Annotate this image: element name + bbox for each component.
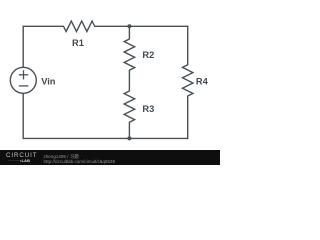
svg-text:R1: R1 xyxy=(72,38,84,48)
svg-text:R2: R2 xyxy=(142,50,154,60)
svg-text:Vin: Vin xyxy=(41,77,56,87)
svg-text:R3: R3 xyxy=(142,104,154,114)
svg-text:R4: R4 xyxy=(196,76,209,86)
